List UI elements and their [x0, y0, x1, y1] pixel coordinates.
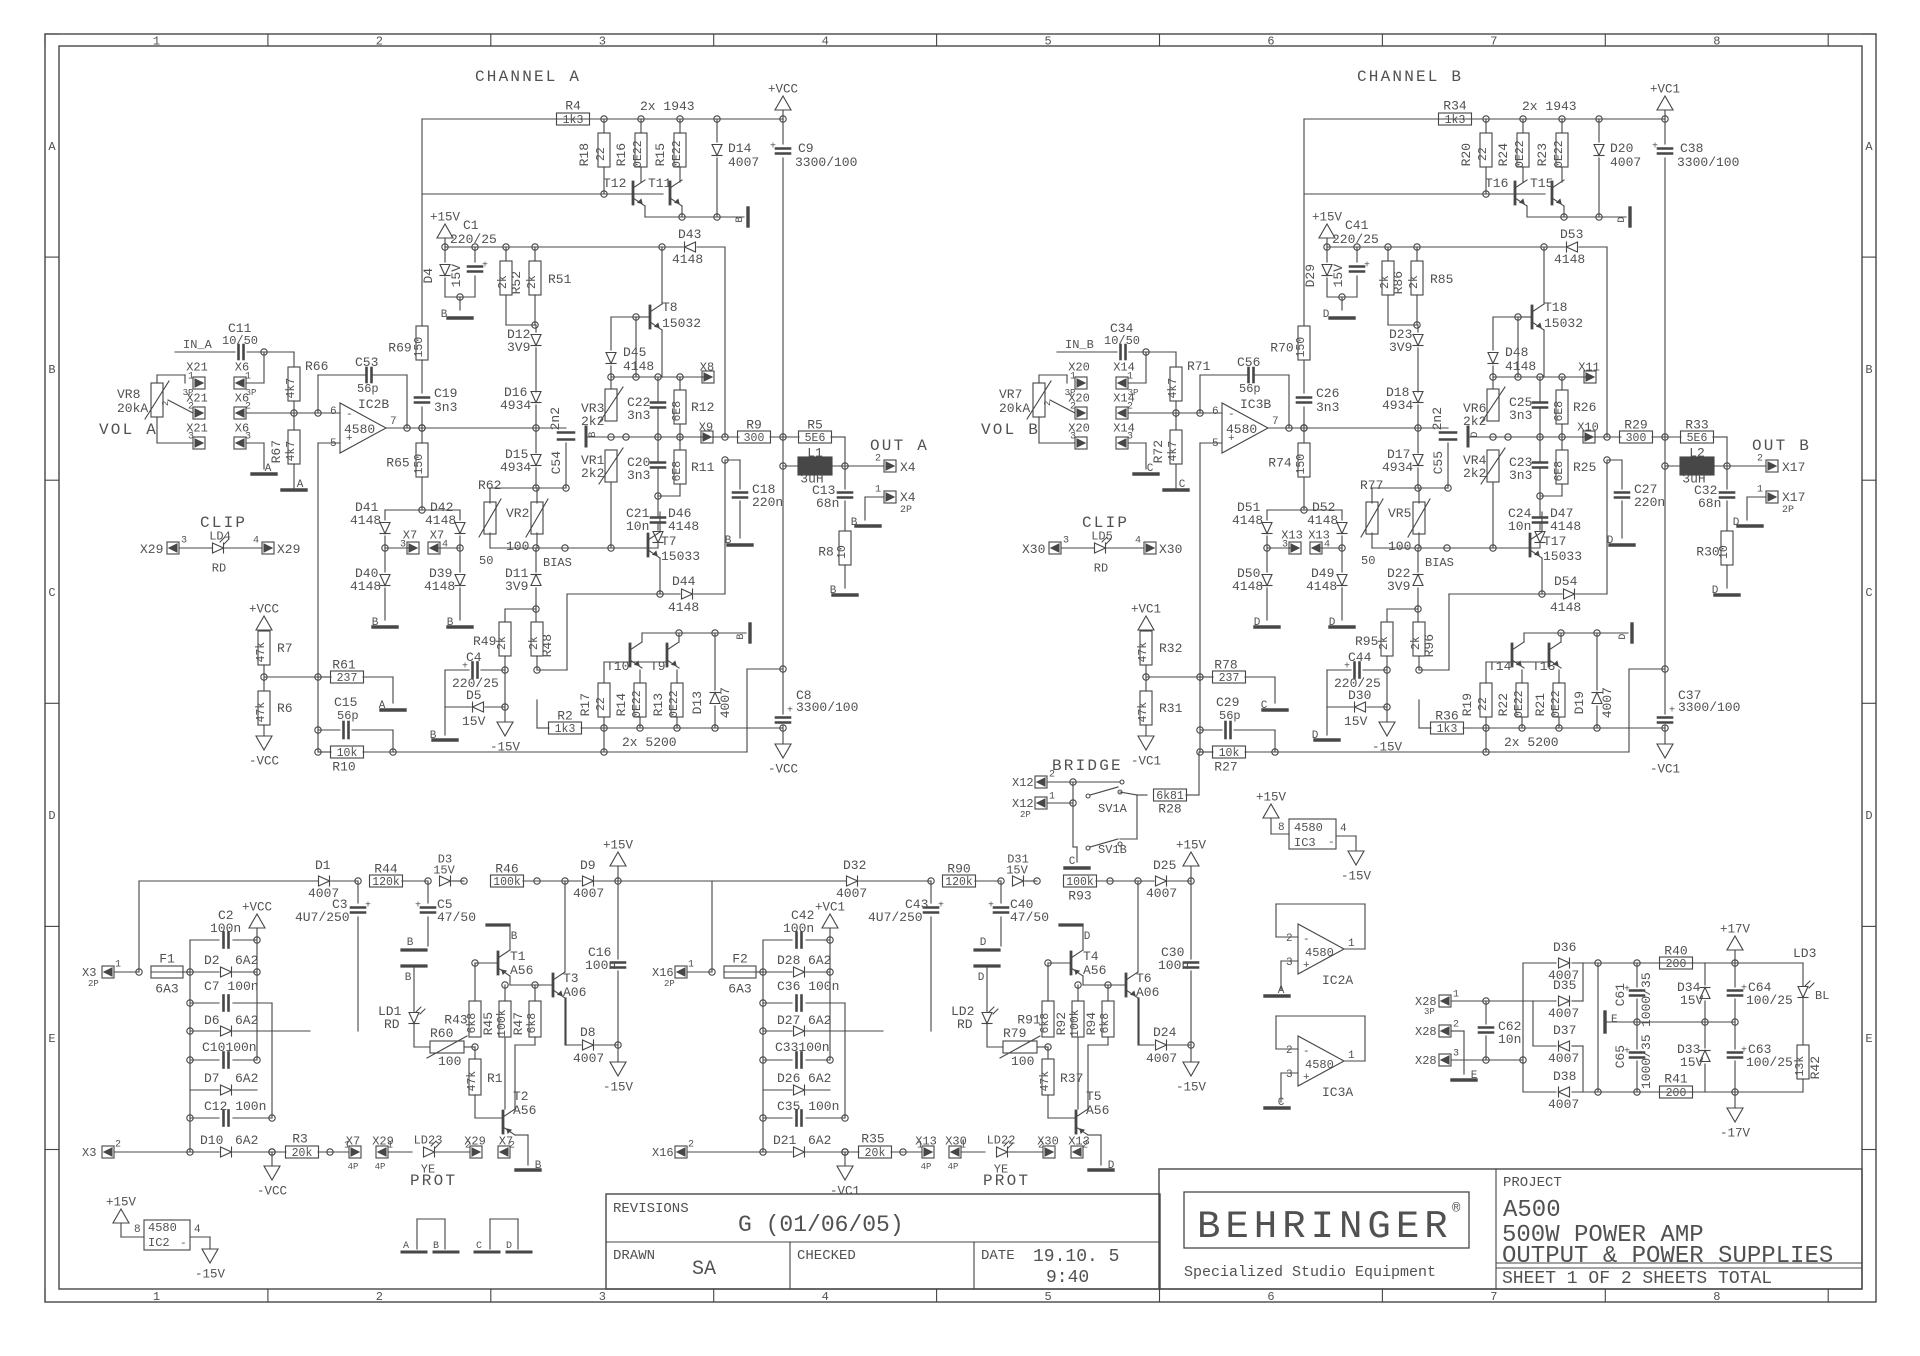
resistor R72 4k7 — [1170, 430, 1182, 464]
svg-text:VOL A: VOL A — [99, 421, 158, 439]
svg-text:R21: R21 — [1533, 693, 1548, 717]
svg-text:+: + — [1303, 1072, 1310, 1084]
op-amp IC2A 4580 — [1276, 903, 1365, 905]
connector X30 pin2 — [1043, 1146, 1055, 1158]
svg-text:X28: X28 — [1415, 1025, 1437, 1039]
power flag +VCC psu — [249, 914, 265, 928]
svg-text:6E8: 6E8 — [1553, 461, 1566, 482]
transistor T15 — [1551, 182, 1554, 204]
svg-text:3300/100: 3300/100 — [796, 700, 858, 715]
connector X7 pin4 — [428, 542, 440, 554]
capacitor C11 10/50 — [237, 345, 240, 359]
connector X21 pin1 — [193, 377, 205, 389]
svg-text:+15V: +15V — [430, 211, 461, 225]
svg-text:R26: R26 — [1573, 400, 1596, 415]
svg-text:0E22: 0E22 — [1550, 690, 1563, 718]
svg-text:-VCC: -VCC — [768, 763, 798, 777]
svg-text:T12: T12 — [603, 176, 626, 191]
wire X8 row — [1493, 376, 1585, 378]
svg-text:3300/100: 3300/100 — [1678, 700, 1740, 715]
svg-text:3: 3 — [1453, 1049, 1459, 1060]
op-amp IC2B 4580 — [340, 403, 386, 453]
svg-text:6A2: 6A2 — [235, 953, 258, 968]
svg-text:2k2: 2k2 — [1463, 414, 1486, 429]
capacitor C23 3n3 — [1533, 461, 1547, 464]
svg-text:R25: R25 — [1573, 460, 1596, 475]
svg-text:4k7: 4k7 — [1167, 441, 1180, 462]
jumper C-D — [490, 1218, 518, 1220]
diode D20 4007 — [1598, 119, 1600, 142]
svg-text:+: + — [988, 901, 994, 912]
pot VR8 20kA — [151, 383, 163, 417]
power flag -15V ic3 — [1348, 851, 1364, 865]
resistor R85 2k — [1411, 261, 1423, 295]
svg-text:20k: 20k — [865, 1147, 886, 1160]
resistor R2 1k3 — [549, 722, 582, 734]
connector X20 pin2 — [1075, 407, 1087, 419]
svg-text:15V: 15V — [1680, 1055, 1704, 1070]
wire rail to R9 — [1595, 436, 1621, 438]
ground flag D d39 — [1330, 625, 1354, 628]
svg-text:4U7/250: 4U7/250 — [868, 910, 923, 925]
svg-text:X20: X20 — [1068, 421, 1090, 435]
connector X30 pin4 — [1144, 542, 1156, 554]
svg-text:4007: 4007 — [573, 886, 604, 901]
svg-text:R15: R15 — [653, 143, 668, 166]
LED LD1 RD — [409, 1013, 419, 1024]
svg-text:8: 8 — [134, 1224, 141, 1236]
svg-text:R9: R9 — [746, 418, 762, 433]
diode D42 4148 — [455, 523, 465, 534]
svg-text:-VC1: -VC1 — [1650, 763, 1680, 777]
svg-text:R61: R61 — [332, 658, 356, 673]
svg-text:C38: C38 — [1680, 141, 1703, 156]
svg-text:X30: X30 — [1022, 542, 1045, 557]
svg-text:A: A — [297, 479, 304, 491]
ground flag D r8 — [1715, 593, 1739, 596]
svg-text:56p: 56p — [357, 382, 379, 396]
svg-text:2x 5200: 2x 5200 — [622, 735, 677, 750]
svg-text:A: A — [403, 1241, 409, 1252]
svg-text:15V: 15V — [1344, 714, 1368, 729]
svg-text:X30: X30 — [1159, 542, 1182, 557]
svg-text:+: + — [1228, 433, 1235, 445]
svg-text:B: B — [48, 363, 55, 377]
wires op-amp — [294, 412, 340, 414]
transistor T1 A56 — [497, 952, 500, 974]
resistor R28 6k81 — [1154, 789, 1187, 801]
capacitor C9 3300/100 — [782, 119, 784, 144]
svg-text:R35: R35 — [861, 1132, 884, 1147]
svg-text:4k7: 4k7 — [285, 378, 298, 399]
svg-text:15V: 15V — [433, 863, 455, 877]
resistor R1 47k — [469, 1059, 481, 1095]
svg-text:4580: 4580 — [148, 1221, 177, 1235]
resistor R36 1k3 — [1431, 722, 1464, 734]
svg-text:R79: R79 — [1003, 1026, 1026, 1041]
svg-text:3n3: 3n3 — [1509, 408, 1532, 423]
svg-text:D10: D10 — [200, 1133, 223, 1148]
wire top rail — [422, 118, 783, 120]
svg-text:R37: R37 — [1060, 1071, 1083, 1086]
svg-text:A: A — [48, 140, 56, 154]
svg-text:+: + — [1364, 261, 1370, 272]
svg-text:D54: D54 — [1554, 574, 1578, 589]
svg-text:C53: C53 — [355, 355, 378, 370]
diode D54 4148 — [1542, 593, 1562, 595]
connector X17 pin1 — [1766, 491, 1778, 503]
svg-text:4148: 4148 — [1306, 579, 1337, 594]
connector X12 pin2 — [1035, 776, 1047, 788]
resistor R45 100k — [499, 1001, 511, 1037]
svg-text:G (01/06/05): G (01/06/05) — [738, 1212, 904, 1238]
net flag D small — [1467, 427, 1470, 446]
resistor R70 150 — [1298, 326, 1310, 360]
svg-text:4007: 4007 — [718, 687, 733, 718]
resistor R29 300 — [1620, 431, 1653, 443]
svg-text:C15: C15 — [334, 695, 357, 710]
ground flag C bridge — [1076, 847, 1078, 862]
resistor R49 2k — [499, 622, 511, 656]
revisions table — [606, 1194, 1160, 1289]
resistor R44 120k — [370, 875, 403, 887]
resistor R16 0E22 — [635, 133, 647, 167]
ground flag C IC3A — [1265, 1106, 1289, 1109]
svg-text:-15V: -15V — [195, 1268, 226, 1282]
svg-text:150: 150 — [413, 337, 426, 358]
svg-text:8: 8 — [1713, 34, 1720, 48]
resistor R34 1k3 — [1439, 113, 1472, 125]
svg-text:X6: X6 — [235, 391, 249, 405]
svg-text:100/25: 100/25 — [1746, 1055, 1793, 1070]
connector X17 pin2 — [1766, 460, 1778, 472]
resistor R78 237 — [1213, 671, 1246, 683]
svg-text:R41: R41 — [1664, 1072, 1688, 1087]
svg-text:2: 2 — [1286, 933, 1293, 945]
svg-text:R60: R60 — [430, 1026, 453, 1041]
connector X20 pin1 — [1075, 377, 1087, 389]
svg-text:47k: 47k — [1137, 642, 1150, 663]
resistor R48 2k — [531, 622, 543, 656]
wire mid rail — [1637, 1021, 1735, 1023]
diode D18 4934 — [1413, 392, 1423, 403]
svg-text:D: D — [1329, 617, 1336, 629]
resistor R9 300 — [738, 431, 771, 443]
svg-text:RD: RD — [1094, 561, 1108, 575]
power flag +VC1 — [1657, 96, 1673, 110]
net flag D — [1628, 208, 1631, 226]
svg-text:2k2: 2k2 — [1463, 466, 1486, 481]
wire mid rail right — [586, 436, 713, 438]
svg-text:100/25: 100/25 — [1746, 993, 1793, 1008]
svg-text:X7: X7 — [430, 528, 444, 542]
wire psu top rail — [712, 880, 846, 882]
transistor T7 15033 — [647, 534, 650, 556]
svg-text:X29: X29 — [464, 1134, 486, 1148]
svg-text:4148: 4148 — [1232, 579, 1263, 594]
svg-text:T6: T6 — [1136, 971, 1152, 986]
svg-text:A: A — [265, 463, 272, 475]
svg-text:1: 1 — [115, 960, 121, 971]
svg-text:10k: 10k — [337, 747, 358, 760]
svg-text:R44: R44 — [374, 862, 398, 877]
zener D29 15V — [1326, 247, 1328, 262]
svg-text:5: 5 — [330, 438, 337, 450]
svg-text:56p: 56p — [1239, 382, 1261, 396]
svg-text:1: 1 — [875, 485, 881, 496]
svg-text:+15V: +15V — [106, 1196, 137, 1210]
svg-text:+: + — [482, 261, 488, 272]
svg-text:4: 4 — [253, 536, 259, 547]
svg-text:X29: X29 — [277, 542, 300, 557]
svg-text:7: 7 — [1272, 416, 1279, 428]
diode D32 4007 — [847, 876, 858, 886]
ground flag D t2 — [1089, 1168, 1113, 1171]
svg-text:A: A — [379, 700, 386, 712]
svg-text:D30: D30 — [1348, 688, 1371, 703]
varres R79 100 — [1003, 1041, 1037, 1053]
transistor T8 15032 — [649, 306, 652, 328]
wire bias rail — [1372, 547, 1539, 549]
svg-text:1k3: 1k3 — [1437, 723, 1458, 736]
svg-text:150: 150 — [413, 454, 426, 475]
capacitor C13 68n — [844, 466, 846, 489]
ground flag A r61 — [381, 708, 405, 711]
wire r11 link — [658, 495, 680, 497]
svg-text:X30: X30 — [1037, 1134, 1059, 1148]
resistor R37 47k — [1042, 1059, 1054, 1095]
svg-text:X8: X8 — [700, 360, 714, 374]
svg-text:D35: D35 — [1553, 978, 1576, 993]
svg-text:D: D — [1618, 634, 1629, 640]
svg-text:22: 22 — [595, 147, 608, 161]
svg-text:R66: R66 — [305, 359, 328, 374]
svg-text:R72: R72 — [1151, 440, 1166, 463]
svg-text:D5: D5 — [466, 688, 482, 703]
inductor L1 3uH — [782, 437, 784, 466]
svg-text:C7 100n: C7 100n — [204, 979, 259, 994]
svg-text:1k3: 1k3 — [563, 114, 584, 127]
ground flag A 2 — [282, 488, 306, 491]
svg-text:100: 100 — [438, 1054, 461, 1069]
svg-text:100n: 100n — [783, 921, 814, 936]
svg-text:22: 22 — [1477, 147, 1490, 161]
svg-text:2x 5200: 2x 5200 — [1504, 735, 1559, 750]
svg-text:2x 1943: 2x 1943 — [1522, 99, 1577, 114]
connector X28 pin1 — [1439, 995, 1451, 1007]
op-amp power IC2 4580 — [144, 1220, 190, 1250]
svg-text:C: C — [1865, 586, 1872, 600]
svg-text:R13: R13 — [651, 693, 666, 716]
diode D53 4148 — [1327, 246, 1565, 248]
svg-text:4148: 4148 — [350, 579, 381, 594]
svg-text:+: + — [1303, 960, 1310, 972]
svg-text:R30: R30 — [1696, 545, 1719, 560]
svg-text:C54: C54 — [549, 451, 564, 475]
zener D23 3V9 — [1417, 325, 1419, 332]
svg-text:R36: R36 — [1435, 709, 1458, 724]
connector X4 pin2 — [884, 460, 896, 472]
svg-text:220n: 220n — [752, 495, 783, 510]
resistor R96 2k — [1413, 622, 1425, 656]
svg-text:SHEET 1 OF 2 SHEETS TOTAL: SHEET 1 OF 2 SHEETS TOTAL — [1502, 1269, 1772, 1289]
varistor R62 — [484, 502, 496, 534]
resistor R19 22 — [1480, 683, 1492, 717]
svg-text:-: - — [1328, 837, 1335, 849]
svg-text:T3: T3 — [563, 971, 579, 986]
svg-text:+VC1: +VC1 — [1131, 603, 1161, 617]
wire psu rail join — [618, 880, 712, 882]
resistor R21 0E22 — [1553, 683, 1565, 717]
svg-text:C1: C1 — [463, 218, 479, 233]
resistor R15 0E22 — [674, 133, 686, 167]
ground flag D out — [1738, 524, 1762, 527]
wires connectors — [1128, 382, 1146, 384]
wire bias rail — [490, 547, 657, 549]
transistor T13 — [1548, 644, 1551, 666]
svg-text:D4: D4 — [421, 268, 436, 284]
svg-text:2k2: 2k2 — [581, 466, 604, 481]
svg-text:4148: 4148 — [350, 513, 381, 528]
svg-text:19.10. 5: 19.10. 5 — [1033, 1247, 1119, 1267]
power flag +VC1 lower — [1138, 616, 1154, 630]
wires psu transistors — [1082, 976, 1084, 985]
connector X7 pin3 — [407, 542, 419, 554]
svg-text:6A3: 6A3 — [155, 982, 178, 997]
resistor R17 22 — [598, 683, 610, 717]
svg-text:6A2: 6A2 — [808, 1071, 831, 1086]
svg-text:0E22: 0E22 — [1513, 690, 1526, 718]
svg-text:6: 6 — [1267, 34, 1274, 48]
svg-text:D: D — [980, 937, 987, 949]
resistor R10 10k — [331, 746, 364, 758]
diode D3 15V — [440, 876, 451, 886]
svg-text:CHECKED: CHECKED — [797, 1248, 856, 1264]
svg-text:4148: 4148 — [1505, 359, 1536, 374]
svg-text:5E6: 5E6 — [805, 432, 826, 445]
svg-text:2k: 2k — [496, 636, 509, 650]
svg-text:C: C — [476, 1241, 482, 1252]
svg-text:R17: R17 — [578, 693, 593, 716]
svg-text:-15V: -15V — [603, 1081, 634, 1095]
svg-text:PROT: PROT — [410, 1172, 457, 1190]
svg-text:R33: R33 — [1685, 418, 1708, 433]
wire d-clamp rails — [385, 509, 460, 511]
svg-text:+VCC: +VCC — [768, 83, 798, 97]
diode D15 4934 — [531, 455, 541, 466]
resistor R22 0E22 — [1516, 683, 1528, 717]
svg-text:3300/100: 3300/100 — [1677, 155, 1739, 170]
svg-text:2P: 2P — [664, 979, 675, 989]
svg-text:4: 4 — [822, 1290, 829, 1304]
power flag +VCC psu — [822, 914, 838, 928]
connector X21 pin3 — [193, 437, 205, 449]
svg-text:2: 2 — [1453, 1020, 1459, 1031]
wires psu transistors — [509, 976, 511, 985]
resistor R47 6k8 — [529, 1001, 541, 1037]
svg-text:C19: C19 — [434, 386, 457, 401]
svg-text:X7: X7 — [499, 1134, 513, 1148]
wire +15 rail — [442, 244, 448, 250]
svg-text:2P: 2P — [1020, 810, 1031, 820]
svg-text:R28: R28 — [1158, 802, 1181, 817]
svg-text:6A2: 6A2 — [808, 1013, 831, 1028]
capacitor C3 4U7/250 — [357, 881, 359, 903]
net flag D lower — [1630, 624, 1633, 642]
svg-text:-VC1: -VC1 — [1131, 755, 1161, 769]
diode D6 6A2 — [190, 1030, 219, 1032]
wire nfb link — [603, 728, 605, 752]
svg-text:3V9: 3V9 — [1389, 340, 1412, 355]
svg-text:X13: X13 — [1308, 528, 1330, 542]
svg-text:20kA: 20kA — [117, 401, 148, 416]
svg-text:8: 8 — [1713, 1290, 1720, 1304]
svg-text:4007: 4007 — [1548, 1006, 1579, 1021]
connector X6 pin1 — [234, 377, 246, 389]
wire d-clamp rails — [1267, 509, 1342, 511]
capacitor C22 3n3 — [651, 401, 665, 404]
ground flag D — [1330, 316, 1354, 319]
capacitor C C41 body — [1356, 247, 1358, 262]
wire rail to R9 — [713, 436, 739, 438]
svg-text:68n: 68n — [816, 496, 839, 511]
diode D9 4007 — [583, 876, 594, 886]
capacitor C25 3n3 — [1533, 401, 1547, 404]
pot VR7 20kA — [1033, 383, 1045, 417]
svg-text:+15V: +15V — [1176, 839, 1207, 853]
svg-text:R34: R34 — [1443, 99, 1467, 114]
svg-text:C4: C4 — [466, 650, 482, 665]
diode D35 4007 — [1559, 996, 1570, 1006]
svg-text:+: + — [938, 901, 944, 912]
diode D17 4934 — [1413, 455, 1423, 466]
svg-text:2k: 2k — [526, 275, 539, 289]
svg-text:IC2B: IC2B — [358, 397, 389, 412]
svg-text:X7: X7 — [346, 1134, 360, 1148]
pot VR3 2k2 — [605, 389, 617, 421]
svg-text:R85: R85 — [1430, 272, 1453, 287]
svg-text:220n: 220n — [1634, 495, 1665, 510]
resistor R40 200 — [1660, 957, 1693, 969]
wires X12 — [1047, 781, 1073, 783]
zener D4 15V — [444, 247, 446, 262]
capacitor C43 4U7/250 — [930, 881, 932, 903]
svg-text:X29: X29 — [372, 1134, 394, 1148]
svg-text:R31: R31 — [1159, 701, 1183, 716]
svg-text:47k: 47k — [255, 702, 268, 723]
net flag E mid — [1603, 1012, 1606, 1032]
svg-text:D9: D9 — [580, 858, 596, 873]
capacitor C64 100/25 — [1734, 963, 1736, 987]
svg-text:R74: R74 — [1268, 456, 1292, 471]
svg-text:IN_B: IN_B — [1065, 338, 1094, 352]
svg-text:15V: 15V — [1680, 993, 1704, 1008]
svg-text:IC2: IC2 — [148, 1236, 170, 1250]
svg-text:®: ® — [1452, 1201, 1461, 1217]
diode D31 15V — [1013, 876, 1024, 886]
svg-text:+: + — [770, 142, 776, 153]
net flag B t1 — [487, 923, 509, 926]
diode D37 4007 — [1559, 1041, 1570, 1051]
svg-text:4148: 4148 — [424, 579, 455, 594]
diode D16 4934 — [531, 392, 541, 403]
capacitor C30 100n — [1190, 881, 1192, 959]
svg-text:X10: X10 — [1577, 420, 1599, 434]
svg-text:6A2: 6A2 — [235, 1133, 258, 1148]
svg-text:B: B — [535, 1160, 542, 1172]
svg-text:X14: X14 — [1113, 360, 1135, 374]
svg-text:B: B — [851, 517, 858, 529]
